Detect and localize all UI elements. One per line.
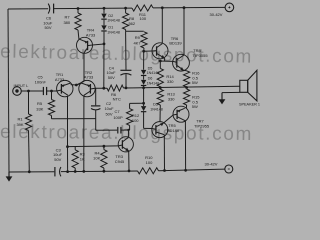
wire bottom rail (left segment to C3) (9, 171, 54, 173)
node R16/R15 output junction (185, 86, 188, 89)
node TR2 base / diode column junction (102, 87, 105, 90)
capacitor C5 (35, 75, 47, 96)
transistor TR4 (A733) (77, 28, 96, 54)
resistor R11 (in top rail) (132, 5, 153, 21)
wire bottom rail (R10 to -V terminal) (159, 169, 225, 171)
wire rail to TR8 collector (183, 8, 185, 55)
node TR1 collector / TR3 base junction (66, 145, 69, 148)
svg-text:D6: D6 (148, 77, 153, 81)
wire R15 bottom to TR7 emitter (185, 105, 187, 108)
resistor R12 (127, 109, 140, 126)
svg-text:1K: 1K (80, 156, 85, 161)
resistor R10 (in bottom rail) (138, 155, 159, 174)
svg-text:380: 380 (63, 20, 70, 25)
wire output rail down to D3 (143, 88, 145, 106)
watermark row 2 (0, 122, 253, 145)
svg-text:5W: 5W (192, 80, 198, 85)
wire top supply rail (R11 to +V terminal) (153, 6, 225, 9)
svg-text:1N4148: 1N4148 (150, 107, 163, 111)
transistor TR5 (BD140) (152, 122, 180, 138)
svg-text:50V: 50V (108, 75, 115, 80)
svg-text:D1: D1 (108, 26, 113, 30)
svg-text:50V: 50V (44, 25, 51, 30)
svg-text:562: 562 (128, 21, 135, 26)
svg-text:100P: 100P (113, 115, 123, 120)
svg-text:BD140: BD140 (167, 128, 180, 133)
svg-text:10uF: 10uF (104, 106, 114, 111)
svg-text:100: 100 (132, 118, 139, 123)
input jack INPUT L (13, 83, 29, 95)
capacitor C6 (in top rail) (43, 4, 53, 31)
wire TR6 base node to D5 (143, 51, 145, 69)
wire TR5 emitter to TR7 base (163, 115, 173, 123)
wire R5 bottom to C2 bottom node (52, 118, 96, 120)
resistor R9 (133, 32, 147, 48)
node R4 top junction (103, 145, 106, 148)
svg-text:C7: C7 (114, 109, 120, 114)
transistor TR2 (A733) (79, 70, 95, 97)
svg-text:R5: R5 (37, 101, 43, 106)
svg-text:TIP2955: TIP2955 (194, 123, 210, 128)
wire speaker return (222, 92, 240, 99)
node C4 output junction (125, 87, 128, 90)
ground (bottom-left arrow) (6, 172, 13, 182)
svg-text:A733: A733 (55, 77, 65, 82)
diode D6 (1N4148) (141, 77, 159, 86)
resistor R6 (feedback) (95, 85, 123, 101)
svg-text:30-42V: 30-42V (210, 12, 223, 17)
wire TR1 collector column to rail (67, 147, 69, 172)
resistor R3 (72, 147, 85, 172)
node R7 top rail junction (77, 7, 80, 10)
svg-text:330: 330 (167, 79, 174, 84)
node C5/R5/TR1 junction (50, 90, 53, 93)
svg-text:SPEAKER 1: SPEAKER 1 (239, 102, 260, 106)
wire C7 to R12 bottom / TR3 collector (121, 125, 130, 130)
svg-text:D5: D5 (148, 66, 153, 70)
wire R8/R9 node branch (126, 30, 144, 32)
svg-text:INPUT L: INPUT L (14, 83, 30, 88)
ground (speaker return arrow) (219, 99, 226, 104)
node TR1 column rail junction (66, 170, 69, 173)
svg-text:100nF: 100nF (35, 80, 47, 85)
node TR6 emitter / R14 junction (159, 60, 162, 63)
svg-text:A733: A733 (84, 75, 94, 80)
node R4 bottom rail junction (103, 170, 106, 173)
wire R12 top to output-column (130, 103, 144, 108)
node D3 top junction (142, 102, 145, 105)
resistor R7 (63, 9, 81, 39)
terminal +V (30-42V top) (210, 3, 234, 17)
resistor R4 (93, 146, 107, 171)
resistor R8 (123, 8, 136, 29)
wire R14 top lead (159, 61, 161, 68)
watermark row 1 (0, 41, 253, 67)
wire R13 bottom to TR5 (159, 105, 161, 122)
wire D6 to output rail (143, 86, 145, 88)
svg-text:5W: 5W (192, 104, 198, 109)
wire TR2 collector to bottom rail (83, 95, 85, 171)
svg-text:4K7: 4K7 (133, 41, 141, 46)
svg-text:1N4148: 1N4148 (107, 19, 120, 23)
transistor TR6 (BD139) (152, 36, 182, 59)
wire TR1/TR2 emitter tie (71, 83, 82, 85)
resistor R1 (16, 91, 31, 172)
wire TR1 collector down (67, 96, 69, 146)
wire TR3 collector up (127, 130, 129, 137)
svg-text:elektroarea.blogspot.com: elektroarea.blogspot.com (0, 122, 253, 145)
diode D1 (1N4148) (101, 25, 120, 34)
wire D5 to D6 (143, 76, 145, 80)
resistor R14 (157, 68, 174, 86)
diode D2 (1N4148) (101, 14, 120, 23)
node TR5 rail junction (163, 169, 166, 172)
wire output rail to speaker (124, 86, 240, 88)
wire D1 to TR4 base node and down to feedback node (103, 32, 105, 89)
wire left frame (ground bus) (8, 9, 9, 172)
wire D3 to TR5 base (144, 112, 152, 129)
svg-text:C945: C945 (115, 159, 125, 164)
node TR2 collector rail junction (82, 170, 85, 173)
svg-text:TIP3055: TIP3055 (192, 53, 208, 58)
svg-text:R9: R9 (135, 35, 141, 40)
wire bottom rail (C3 to R10) (61, 170, 138, 173)
wire top supply rail (C6 to R11) (54, 7, 132, 10)
wire rail to D2 (103, 8, 105, 13)
wire TR5 collector to rail (163, 135, 165, 171)
node D2 top rail junction (103, 7, 106, 10)
node emitter tie junction (75, 84, 78, 87)
wire TR4 base to diode node (92, 44, 104, 45)
wire C2 bottom to C7 (96, 129, 118, 131)
svg-text:33K: 33K (36, 107, 43, 112)
transistor TR1 (A733) (55, 72, 73, 97)
svg-text:50V: 50V (105, 112, 112, 117)
terminal -V (30-42V bottom) (205, 162, 233, 173)
svg-text:39K: 39K (16, 122, 23, 127)
transistor TR7 (TIP2955) (173, 106, 210, 128)
diode D5 (1N4148) (141, 66, 159, 75)
wire TR3 base line (68, 145, 119, 148)
node R1 bottom rail junction (28, 170, 31, 173)
wire TR3 emitter to rail (128, 151, 130, 171)
wire emitter tie to TR4 collector (76, 53, 84, 85)
resistor R16 (184, 71, 201, 87)
wire C5 to TR1 base (47, 90, 57, 92)
svg-text:A733: A733 (86, 33, 96, 38)
node D6 output junction (142, 86, 145, 89)
node TR6 base junction (142, 50, 145, 53)
transistor TR8 (TIP3055) (173, 48, 209, 71)
svg-text:BD139: BD139 (169, 41, 182, 46)
wire TR6 base (144, 50, 152, 52)
svg-text:1N4148: 1N4148 (107, 30, 120, 34)
node R14/R13 output junction (159, 86, 162, 89)
resistor R15 (184, 89, 201, 109)
resistor R5 (36, 91, 54, 119)
wire input to C5 (21, 90, 43, 92)
wire TR8 emitter to R16 (184, 69, 187, 72)
node D1 bottom / TR4 base junction (103, 43, 106, 46)
wire R9 bottom to TR6 base node (143, 48, 145, 51)
node R3 bottom rail junction (74, 170, 77, 173)
wire top supply rail (left segment to C6) (8, 8, 48, 10)
transistor TR3 (C945) (115, 137, 134, 164)
node TR7 rail junction (184, 169, 187, 172)
wire rail to TR6 collector (161, 8, 163, 44)
node input/R1 junction (27, 90, 30, 93)
node TR3 emitter rail junction (128, 170, 131, 173)
wire D2 to D1 (103, 20, 105, 26)
speaker SPEAKER 1 (239, 70, 260, 106)
node TR6 collector rail junction (161, 6, 164, 9)
node TR8 collector rail junction (183, 6, 186, 9)
svg-text:330: 330 (168, 96, 175, 101)
svg-text:100: 100 (139, 16, 146, 21)
svg-text:D2: D2 (108, 14, 113, 18)
node R8 top rail junction (124, 7, 127, 10)
capacitor C2 (91, 88, 114, 130)
diode D3 (1N4148) (141, 103, 163, 112)
svg-text:100: 100 (146, 160, 153, 165)
capacitor C4 (bootstrap) (106, 31, 131, 88)
capacitor C3 (in bottom rail) (53, 147, 63, 176)
svg-text:10K: 10K (93, 156, 100, 161)
svg-text:30-42V: 30-42V (205, 162, 218, 167)
svg-text:NTC: NTC (113, 97, 121, 102)
resistor R13 (157, 89, 175, 105)
wire TR7 collector to rail (184, 121, 186, 171)
wire R8 bottom node (125, 30, 127, 32)
capacitor C7 (113, 109, 123, 134)
wire TR6 emitter node (159, 58, 173, 61)
node TR3 collector junction (127, 129, 129, 131)
svg-text:50V: 50V (54, 157, 61, 162)
